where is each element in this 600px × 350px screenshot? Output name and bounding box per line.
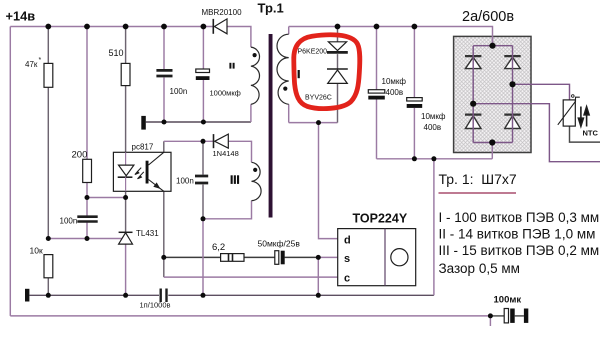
capacitor 100uk solid plate: [510, 309, 515, 323]
svg-text:*: *: [39, 57, 42, 64]
svg-text:2а/600в: 2а/600в: [462, 9, 514, 25]
node bus/1000uF: [201, 24, 207, 30]
wire bridge top input: [492, 36, 494, 45]
winding I polarity dot: [283, 87, 287, 91]
capacitor 50uF solid plate: [281, 251, 285, 265]
resistor 10k body: [44, 255, 53, 278]
svg-text:100мк: 100мк: [494, 294, 522, 305]
capacitor 100uk hollow plate: [504, 309, 508, 323]
IC TOP224Y box: [338, 229, 416, 286]
svg-text:100n: 100n: [170, 87, 188, 96]
wire 100n(bus) upper lead: [163, 27, 165, 70]
svg-text:10мкф: 10мкф: [382, 77, 407, 86]
svg-text:1000мкф: 1000мкф: [210, 89, 241, 98]
wire winding III bottom: [203, 201, 252, 219]
diode BYV26C triangle: [328, 70, 348, 83]
node primary bus snubber: [335, 24, 341, 30]
node winding II return 1000uF: [201, 120, 206, 125]
node winding III ground: [201, 216, 206, 221]
wire 50uF to s node: [285, 256, 319, 258]
wire drain line down to TOP224Y: [319, 123, 338, 239]
svg-text:200: 200: [72, 150, 88, 161]
capacitor 50uF hollow plate: [275, 251, 279, 265]
resistor 47k body: [44, 63, 53, 87]
node snubber bottom drain: [316, 120, 321, 125]
heading underline: [439, 192, 517, 194]
svg-text:400в: 400в: [424, 123, 442, 132]
ground bar secondary: [25, 289, 29, 302]
resistor 200 body: [83, 159, 92, 182]
svg-text:TL431: TL431: [136, 229, 159, 238]
wire tap down to primary ground corner: [433, 159, 435, 295]
wire c pin line: [164, 276, 338, 278]
svg-text:MBR20100: MBR20100: [202, 8, 243, 17]
wire bottom return line: [10, 315, 490, 317]
pc817 emitter diagonal: [149, 180, 164, 192]
svg-text:50мкф/25в: 50мкф/25в: [258, 239, 301, 249]
node rail cap2: [412, 156, 417, 161]
wire 6.2 to 50uF: [244, 256, 275, 258]
pc817 light arrow 1: [135, 168, 141, 175]
diode MBR20100 cathode bar: [212, 19, 214, 34]
capacitor 10uF-1 solid plate: [368, 96, 385, 100]
wire bridge internal right branch: [512, 46, 514, 143]
bridge diode bottom-left bar: [465, 113, 481, 115]
wire ground line right of Y-cap: [168, 294, 434, 296]
wire s node down to primary ground: [317, 257, 319, 295]
node ground TL431: [123, 293, 128, 298]
svg-text:d: d: [344, 235, 351, 247]
wire left feedback frame: [9, 27, 11, 316]
wire node to opto cathode line: [87, 197, 126, 199]
wire 1000uF lower lead: [202, 80, 204, 122]
optocoupler pc817 box: [113, 152, 171, 191]
pc817 LED cathode lead: [125, 177, 127, 191]
node bus/47k: [45, 24, 51, 30]
bridge rectifier body: [454, 36, 531, 152]
capacitor 100n on bus plates: [156, 70, 172, 76]
node bridge right: [509, 81, 515, 87]
capacitor 10uF-1 hollow plate: [368, 90, 385, 93]
wire 47k to divider node: [47, 87, 49, 238]
wire bridge internal bottom node: [473, 142, 512, 144]
diode 1N4148 triangle: [215, 134, 229, 148]
wire 1N4148 anode to winding III: [228, 141, 251, 162]
wire top +14v bus: [10, 26, 213, 28]
winding II polarity dot: [253, 53, 257, 57]
svg-text:47к: 47к: [25, 60, 38, 69]
node rail tap: [431, 156, 436, 161]
capacitor 100n at divider plates: [77, 217, 97, 222]
TL431 triangle: [119, 233, 133, 244]
capacitor 100n primary-side plates: [195, 176, 208, 183]
resistor 6.2 body: [221, 254, 244, 262]
node divider 100n: [85, 236, 90, 241]
wire 1000uF upper lead: [202, 27, 204, 70]
node ground s-pin: [316, 293, 321, 298]
svg-text:510: 510: [109, 48, 124, 58]
annotation red circle around snubber: [294, 35, 360, 109]
node bus/100n: [161, 24, 167, 30]
bridge diode top-right triangle: [505, 57, 521, 68]
svg-text:c: c: [344, 273, 350, 285]
wire bridge left node to lower output: [473, 104, 600, 162]
wire bus from MBR20100 anode to winding II top: [227, 27, 251, 48]
svg-text:NTC: NTC: [583, 129, 599, 138]
wire between P6KE200 and BYV26C: [337, 54, 339, 68]
wire pc817 emitter down: [163, 191, 165, 277]
wire cap2 upper lead: [413, 27, 415, 98]
node divider 47k: [46, 236, 51, 241]
wire bridge right node to NTC: [513, 84, 570, 100]
pc817 collector diagonal: [149, 152, 164, 165]
wire primary top bus: [289, 27, 493, 46]
wire 10k lower lead: [47, 278, 49, 296]
wire 47k upper lead: [47, 27, 49, 64]
capacitor 1000uF solid plate: [196, 76, 210, 80]
capacitor 10uF-2 solid plate: [407, 104, 423, 108]
pc817 emitter arrowhead: [154, 183, 159, 188]
node s pin: [316, 255, 321, 260]
svg-text:Зазор 0,5 мм: Зазор 0,5 мм: [439, 261, 520, 276]
wire 510 upper lead: [125, 27, 127, 64]
wire 100n(bus) lower lead: [163, 78, 165, 123]
svg-text:400в: 400в: [386, 88, 404, 97]
node 200/100n junction: [85, 195, 90, 200]
svg-text:1п/1000в: 1п/1000в: [140, 301, 171, 310]
svg-text:P6KE200: P6KE200: [298, 49, 328, 56]
bridge diode top-left triangle: [465, 57, 481, 68]
node collector 1N4148: [201, 139, 206, 144]
wire secondary ground line: [30, 294, 160, 296]
resistor 6.2 inner bars: [229, 254, 233, 262]
node bridge left: [470, 101, 476, 107]
wire emitter tap to 6.2 resistor: [164, 256, 221, 258]
pc817 LED cathode bar: [118, 176, 133, 178]
svg-text:pc817: pc817: [132, 143, 154, 152]
wire snubber bottom line: [289, 122, 338, 124]
wire winding I top lead: [288, 27, 290, 35]
wire 100uF cap to end bar: [515, 315, 524, 317]
wire bridge internal left branch: [472, 46, 474, 143]
wire caps bottom rail: [377, 158, 493, 160]
svg-text:6,2: 6,2: [212, 242, 225, 253]
TVS P6KE200 cathode bar: [327, 51, 348, 54]
wire bridge internal top node: [473, 45, 512, 47]
bridge diode top-right bar: [504, 55, 520, 57]
wire cap1 lower lead to bottom rail: [376, 99, 378, 159]
node ground primary: [201, 293, 206, 298]
wire stub below bottom-line dot: [489, 316, 491, 326]
wire winding II bottom lead: [250, 104, 252, 122]
pc817 phototransistor base bar: [146, 161, 149, 184]
node primary bus cap2: [412, 24, 418, 30]
wire bottom dot to 100uF cap: [490, 315, 504, 317]
svg-text:s: s: [344, 253, 350, 265]
svg-text:1N4148: 1N4148: [213, 149, 239, 158]
pc817 LED triangle: [119, 165, 134, 176]
label winding II roman: [229, 63, 231, 69]
svg-text:10мкф: 10мкф: [421, 112, 446, 121]
svg-text:I - 100 витков ПЭВ 0,3 мм: I - 100 витков ПЭВ 0,3 мм: [439, 210, 600, 225]
node bridge top: [489, 43, 495, 49]
capacitor 1000uF hollow plate: [196, 69, 210, 73]
wire bridge bottom output: [491, 143, 493, 159]
capacitor 10uF-2 hollow plate: [407, 98, 423, 101]
svg-text:100n: 100n: [60, 217, 78, 226]
svg-text:TOP224Y: TOP224Y: [353, 212, 408, 226]
wire 200 to 100n node: [86, 183, 88, 216]
wire 100n(primary) top lead: [202, 141, 204, 174]
ground bar winding II return: [141, 116, 146, 130]
label winding III roman: [231, 175, 233, 184]
node primary bus cap1: [374, 24, 380, 30]
transformer core bar: [269, 34, 273, 218]
node bus/200: [84, 24, 90, 30]
node bridge bottom: [489, 139, 495, 145]
wire winding I bottom lead: [288, 104, 290, 122]
NTC diagonal: [558, 97, 580, 125]
wire pc817 cathode to TL431: [125, 191, 127, 232]
thermistor NTC body: [563, 100, 575, 126]
wire winding II bottom to ground bar: [146, 121, 251, 123]
bridge diode top-left bar: [465, 55, 481, 57]
TVS P6KE200 triangle: [328, 42, 346, 51]
node opto cathode: [123, 195, 128, 200]
svg-text:Тр. 1: Ш7х7: Тр. 1: Ш7х7: [439, 171, 517, 187]
wire 100n to divider line: [86, 222, 88, 239]
wire cap2 lower lead: [413, 108, 415, 159]
wire BYV26C anode down: [337, 83, 339, 122]
wire snubber vertical top: [337, 27, 339, 42]
terminator bar after 100uk: [524, 309, 528, 323]
TOP224Y divider: [384, 229, 386, 286]
svg-text:Тр.1: Тр.1: [258, 0, 284, 15]
wire primary node down to ground line: [202, 219, 204, 295]
wire 510 to pc817 anode: [125, 86, 127, 153]
TL431 cathode bar: [119, 231, 133, 233]
bridge diode bottom-right triangle: [505, 116, 521, 129]
wire s pin: [318, 256, 337, 258]
resistor 510 body: [121, 63, 130, 85]
transformer winding III arcs: [252, 162, 262, 200]
node bus/510: [123, 24, 129, 30]
label winding I roman: [298, 70, 300, 78]
diode MBR20100 triangle: [214, 19, 227, 34]
NTC up arrow: [584, 107, 589, 127]
wire cap1 upper lead: [376, 27, 378, 90]
svg-text:II - 14 витков ПЭВ 1,0 мм: II - 14 витков ПЭВ 1,0 мм: [439, 227, 596, 242]
wire pc817 collector up: [163, 141, 165, 152]
wire 100n(primary) bottom lead: [202, 185, 204, 219]
pc817 LED anode lead: [125, 152, 127, 165]
capacitor Y 1n/1000v plates: [161, 289, 167, 303]
wire TL431 anode to ground line: [125, 244, 127, 295]
wire NTC bottom to output: [570, 126, 600, 142]
node winding II return 100n: [162, 120, 167, 125]
pc817 light arrow 2: [138, 172, 144, 179]
svg-text:+14в: +14в: [6, 9, 36, 24]
svg-text:10к: 10к: [30, 246, 43, 256]
svg-text:100n: 100n: [176, 177, 194, 186]
bridge diode bottom-right bar: [504, 113, 520, 115]
bridge diode bottom-left triangle: [465, 116, 481, 129]
winding III polarity dot: [253, 168, 257, 172]
wire divider to TL431 ref: [48, 238, 122, 240]
svg-text:III - 15 витков ПЭВ 0,2 мм: III - 15 витков ПЭВ 0,2 мм: [439, 243, 600, 258]
NTC down arrow: [578, 107, 583, 127]
transformer winding I arcs: [277, 34, 289, 104]
node ground 10k: [46, 293, 51, 298]
wire collector line to 1N4148: [164, 140, 213, 142]
diode 1N4148 cathode bar: [213, 134, 215, 148]
svg-text:BYV26C: BYV26C: [305, 95, 332, 102]
node bottom line 100uk: [488, 313, 493, 318]
transformer winding II arcs: [251, 47, 260, 104]
NTC t-degree mark: [572, 95, 575, 98]
TOP224Y circle: [391, 249, 408, 266]
wire 200 upper lead: [86, 27, 88, 160]
node emitter tap: [161, 255, 166, 260]
diode BYV26C cathode bar: [327, 68, 348, 70]
